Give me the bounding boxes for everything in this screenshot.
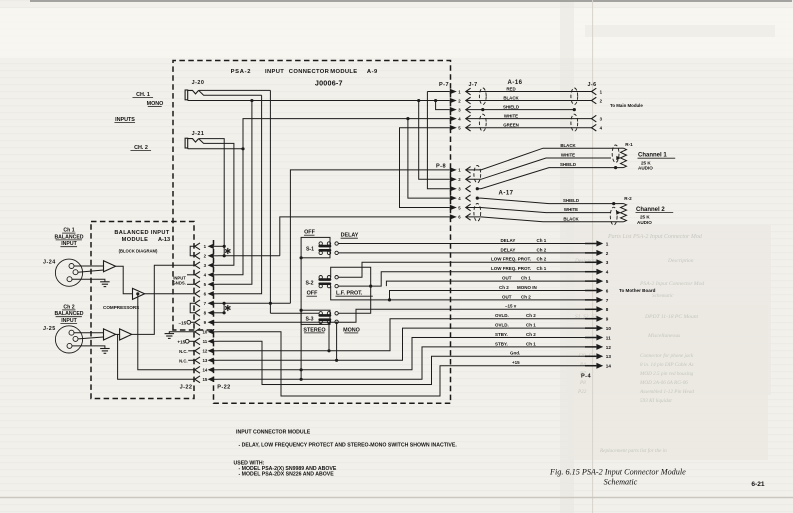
junction compressor1 out (136, 292, 139, 295)
P-22 pin 15 arrow (208, 377, 214, 382)
P-7 pin 2 arrow (450, 98, 457, 103)
wire pin 15 to STBY Ch1 bus (218, 347, 596, 379)
J-7 pin 1 contact (466, 88, 471, 95)
svg-text:OVLD.: OVLD. (495, 313, 509, 318)
svg-text:Ch 2: Ch 2 (526, 332, 536, 337)
switch S-3 STEREO/MONO (319, 312, 322, 315)
junction shield wire right (573, 108, 576, 111)
junction common rail on pin 14 (300, 368, 303, 371)
svg-text:R-2: R-2 (624, 196, 632, 201)
switch S-1 DELAY (319, 242, 322, 245)
wire XLR2 pin to amp (74, 332, 104, 334)
svg-text:AUDIO: AUDIO (638, 166, 653, 171)
ground symbol pin 10 (169, 332, 194, 334)
svg-text:Gnd.: Gnd. (510, 351, 520, 356)
svg-text:+15: +15 (512, 360, 520, 365)
svg-text:+15: +15 (177, 339, 185, 344)
junction shield at R-2 (612, 202, 615, 205)
wire J-21 tip down to J-22 pins 1-2 (199, 139, 225, 247)
junction Ch 2 MONO IN riser (388, 298, 391, 301)
svg-text:R-1: R-1 (625, 142, 633, 147)
wire compressor2 to pin 3 (132, 265, 195, 334)
svg-text:CONNECTOR: CONNECTOR (289, 69, 330, 75)
ground symbol ch2 input (100, 348, 110, 350)
P-22 connector dashed edge (213, 240, 215, 330)
svg-text:J-6: J-6 (588, 82, 597, 88)
svg-text:1: 1 (606, 241, 609, 246)
cable shield oval right pins1-3 (571, 88, 578, 105)
wire J-20 ring vertical to pin 6 (218, 95, 262, 294)
svg-text:GNDS.: GNDS. (173, 280, 186, 285)
svg-text:J-25: J-25 (43, 326, 56, 332)
svg-text:11: 11 (606, 335, 611, 340)
svg-text:INPUTS: INPUTS (115, 117, 135, 123)
svg-text:To Mother Board: To Mother Board (619, 288, 656, 293)
junction A-17 shield ch2 (476, 197, 479, 200)
P-4 pin 11 arrow (585, 337, 596, 339)
wire ch2 WHITE (466, 208, 611, 213)
switch S-3 box (301, 310, 330, 324)
P-22 pin 6 arrow (208, 291, 214, 296)
J-22 pin 11 contact (195, 338, 200, 345)
wire S-3 contact to pin 13 (336, 322, 338, 361)
svg-text:Ch 2: Ch 2 (499, 285, 509, 290)
svg-text:A-17: A-17 (498, 191, 513, 197)
wire tap to pin 14 (138, 294, 195, 370)
P-4 pin 2 arrow (585, 252, 596, 254)
J-22 pin 5 contact (195, 281, 200, 288)
svg-text:13: 13 (606, 354, 612, 359)
wire pins 1-2 bridge (218, 245, 224, 247)
J-7 pin 4 contact (466, 115, 471, 122)
balanced input module A-13 dashed box (91, 222, 194, 399)
svg-text:BLACK: BLACK (560, 143, 576, 148)
svg-text:SHIELD: SHIELD (560, 162, 576, 167)
svg-text:P22: P22 (577, 389, 587, 395)
cable shield oval A-17 pins1-2 (474, 166, 481, 183)
svg-text:INPUT CONNECTOR MODULE: INPUT CONNECTOR MODULE (236, 430, 311, 436)
wire pin 7 to P-8 pin 1 riser (224, 302, 290, 304)
svg-text:STEREO: STEREO (303, 327, 325, 333)
svg-text:P-7: P-7 (439, 82, 449, 88)
wire P-7 pin4 to P-8 pin4 (408, 119, 450, 198)
svg-text:RED: RED (506, 86, 515, 91)
svg-text:10: 10 (606, 326, 612, 331)
wire A-16 BLACK (466, 100, 592, 102)
svg-text:SHIELD: SHIELD (503, 104, 519, 109)
svg-text:6-21: 6-21 (751, 481, 765, 488)
svg-text:2: 2 (606, 251, 609, 256)
wire XLR2 ground (72, 346, 105, 349)
P-22 pin 10 arrow (208, 329, 214, 334)
J-22 pin 8 contact (195, 309, 200, 316)
J-6 pin 4 contact (592, 124, 597, 131)
P-22 pin 4 arrow (208, 272, 214, 277)
wire amp1 to compressor1 (116, 266, 133, 294)
wire XLR2 pin to amp 2 (78, 337, 104, 339)
svg-text:To Main Module: To Main Module (610, 103, 643, 108)
svg-text:P-22: P-22 (217, 385, 230, 391)
svg-text:COMPRESSORS: COMPRESSORS (103, 305, 139, 310)
wire P-8 pin1 from module (290, 170, 449, 303)
P-8 mating contact 6 (466, 214, 471, 221)
P-4 pin 12 arrow (585, 346, 596, 348)
svg-text:OUT: OUT (502, 294, 512, 299)
svg-text:BALANCED INPUT: BALANCED INPUT (114, 230, 170, 236)
wire pin 12 to OVLD Ch2 bus (218, 319, 596, 351)
svg-text:P8: P8 (579, 380, 586, 386)
svg-text:MOD 2.5 pin red housing: MOD 2.5 pin red housing (639, 371, 694, 377)
wire J-21 sleeve (187, 147, 189, 150)
svg-text:A-9: A-9 (367, 69, 378, 75)
wire XLR1 ground (72, 279, 105, 282)
svg-text:14: 14 (202, 368, 207, 373)
wire P-7 pin1 stub (427, 91, 449, 93)
svg-text:WHITE: WHITE (504, 113, 518, 118)
svg-text:P-8: P-8 (436, 164, 446, 170)
svg-text:MONO: MONO (147, 101, 164, 107)
common rail from S-1 to pin 15 (300, 258, 302, 380)
switch S-2 L.F. PROT (319, 276, 322, 279)
svg-text:P-4: P-4 (581, 374, 591, 380)
P-22 pin 5 arrow (208, 282, 214, 287)
wire S-3 pole to pin 12 (328, 322, 330, 351)
svg-text:OVLD.: OVLD. (495, 323, 509, 328)
wire J-20 tip vertical to S-3 (269, 90, 271, 313)
svg-text:5: 5 (606, 279, 609, 284)
wire S-2 bottom contact to LOW FREQ Ch1 bus (338, 272, 596, 286)
wire sleeve tap vertical to pin 5 (250, 99, 253, 102)
svg-text:DELAY: DELAY (501, 247, 516, 252)
svg-text:14: 14 (606, 364, 612, 369)
P-4 pin 14 arrow (585, 365, 596, 367)
op-amp ch1 input buffer (104, 261, 116, 272)
cable shield oval at R-2 (610, 207, 617, 225)
wire pin 14 to STBY Ch2 bus (218, 338, 596, 370)
J-22 pin 1 contact (195, 243, 200, 250)
cable shield oval left pins1-3 (479, 88, 486, 105)
J-7 pin 5 contact (466, 124, 471, 131)
svg-text:Schematic: Schematic (652, 293, 674, 299)
junction A-17 shield ch1 (476, 187, 479, 190)
svg-text:INPUT: INPUT (61, 318, 77, 324)
P-4 pin 13 arrow (585, 355, 596, 357)
compressor ch1 (133, 288, 145, 299)
P-22 pin 3 arrow (208, 263, 214, 268)
svg-text:DELAY: DELAY (341, 233, 359, 239)
wire pin 9 to -15 v bus (218, 309, 596, 322)
svg-text:A-16: A-16 (507, 80, 522, 86)
input connector module A-9 dashed box (173, 61, 451, 404)
svg-text:–15: –15 (179, 320, 187, 325)
wire S-2 pole to OUT Ch 2 bus (331, 286, 597, 300)
P-4 pin 6 arrow (585, 290, 596, 292)
svg-text:BALANCED: BALANCED (54, 234, 83, 240)
svg-text:13: 13 (202, 358, 207, 363)
svg-text:12: 12 (202, 349, 207, 354)
svg-text:9: 9 (606, 317, 609, 322)
wire P-7 pin5 to P-8 pin5 (400, 128, 450, 208)
J-22 pin 12 contact (195, 347, 200, 354)
wire A-16 GREEN (466, 127, 592, 129)
P-22 pin 2 arrow (208, 253, 214, 258)
J-22 pin 14 contact (195, 366, 200, 373)
wire pin 10 loop to +15 bus (218, 332, 596, 396)
svg-text:J-21: J-21 (192, 131, 205, 137)
wire A-16 SHIELD (466, 109, 575, 111)
junction P-7 pin2 / bridge to pin3 (434, 99, 437, 102)
P-8 mating contact 5 (466, 204, 471, 211)
junction P-7 pin2 / P-8 pin2 drop (417, 99, 420, 102)
svg-text:Ch 2: Ch 2 (537, 247, 547, 252)
svg-text:Description: Description (667, 258, 694, 264)
P-22 pin 14 arrow (208, 367, 214, 372)
wire ch1 WHITE (466, 158, 611, 179)
svg-text:593 KI liquidat: 593 KI liquidat (640, 398, 672, 404)
J-22 pins 1-2 jumper (190, 246, 194, 256)
asterisk note pins 1-2 (227, 248, 229, 254)
wire pin 2 to P-8 pin 6 riser (218, 255, 280, 257)
svg-text:MOD 2A-06 6A RG-06: MOD 2A-06 6A RG-06 (639, 380, 688, 386)
P-22 pin 13 arrow (208, 358, 214, 363)
J-22 pin 15 contact (195, 376, 200, 383)
J-22 pin 9 contact (195, 319, 200, 326)
wire J-21 ring down to pin 3 (199, 139, 234, 266)
P-7 pin 4 arrow (450, 116, 457, 121)
P-8 pin 3 arrow (450, 186, 457, 191)
svg-text:J0006-7: J0006-7 (315, 79, 343, 88)
svg-text:DELAY: DELAY (501, 238, 516, 243)
wire ch2 SHIELD (477, 198, 619, 204)
svg-text:J-24: J-24 (43, 260, 56, 266)
svg-text:Fig. 6.15 PSA-2 Input Connect: Fig. 6.15 PSA-2 Input Connector Module (549, 468, 686, 477)
svg-text:N.C.: N.C. (179, 358, 187, 363)
svg-text:Replacement parts list for the: Replacement parts list for the in (599, 447, 667, 454)
junction P-7 pin 4 / P-8 pin 4 drop (406, 117, 409, 120)
P-4 pin 4 arrow (585, 271, 596, 273)
svg-text:OUT: OUT (502, 276, 512, 281)
P-7 pin 3 arrow (450, 107, 457, 112)
cable shield oval A-17 pins5-6 (474, 204, 481, 222)
svg-text:Ch 1: Ch 1 (537, 238, 547, 243)
svg-text:6: 6 (606, 288, 609, 293)
asterisk note pins 7-8 (227, 305, 229, 311)
P-8 mating contact 4 (466, 195, 471, 202)
J-22 pin 7 contact (195, 300, 200, 307)
svg-text:8 in. 14 pin DIP Cable As: 8 in. 14 pin DIP Cable As (640, 361, 694, 368)
svg-text:J-7: J-7 (469, 82, 478, 88)
svg-text:S-3: S-3 (305, 316, 313, 322)
op-amp ch2 input buffer (104, 329, 116, 340)
svg-text:Ch 2: Ch 2 (537, 257, 547, 262)
svg-text:LOW FREQ. PROT.: LOW FREQ. PROT. (491, 257, 531, 262)
junction S-3 pole stub on pin 12 (327, 349, 330, 352)
svg-text:3: 3 (606, 260, 609, 265)
svg-text:INPUT: INPUT (265, 69, 284, 75)
compressor ch2 (120, 329, 132, 340)
wire S-1 to DELAY Ch2 bus (338, 252, 596, 254)
P-8 pin 1 arrow (450, 167, 457, 172)
cable shield oval left pins4-5 (479, 114, 486, 131)
svg-text:Channel 1: Channel 1 (638, 153, 667, 159)
J-7 pin 3 contact (466, 106, 471, 113)
wire tap to pin 15 (118, 334, 195, 379)
svg-text:15: 15 (202, 377, 207, 382)
wire ch1 SHIELD (477, 168, 619, 189)
P-4 pin 1 arrow (585, 243, 596, 245)
svg-text:S-2: S-2 (305, 280, 313, 286)
junction shield wire left (481, 108, 484, 111)
svg-text:Schematic: Schematic (604, 478, 638, 487)
wire J-20 ring contact (199, 90, 262, 95)
P-4 pin 3 arrow (585, 261, 596, 263)
wire pin 13 to OVLD Ch1 bus (218, 328, 596, 360)
P-4 pin 9 arrow (585, 318, 596, 320)
ground symbol ch1 input (100, 281, 110, 283)
junction common rail end on pin 15 (300, 378, 303, 381)
P-22 pin 8 arrow (208, 310, 214, 315)
svg-text:7: 7 (606, 298, 609, 303)
junction shield at R-1 (614, 166, 617, 169)
P-8 pin 4 arrow (450, 195, 457, 200)
P-8 mating contact 2 (466, 176, 471, 183)
svg-text:S-1: S-1 (306, 247, 314, 253)
P-22 pin 12 arrow (208, 348, 214, 353)
svg-text:Channel 2: Channel 2 (636, 207, 665, 213)
cable shield oval right pins4-5 (571, 114, 578, 131)
svg-text:P4: P4 (579, 361, 586, 368)
svg-text:Ch 1: Ch 1 (537, 266, 547, 271)
wire XLR1 pin to amp 2 (78, 270, 104, 272)
wire A-16 WHITE (466, 118, 592, 120)
svg-text:Ch 1: Ch 1 (63, 228, 74, 234)
junction interconnect on LOW FREQ Ch1 wire (369, 285, 372, 288)
P-22 pin 11 arrow (208, 339, 214, 344)
svg-text:Parts List PSA-2 Input Conn: Parts List PSA-2 Input Connector Mod (607, 234, 703, 240)
svg-text:–15 v: –15 v (505, 304, 517, 309)
P-8 pin 6 arrow (450, 214, 457, 219)
svg-text:Ch 2: Ch 2 (63, 304, 74, 310)
svg-text:4: 4 (606, 270, 609, 275)
svg-text:8: 8 (606, 307, 609, 312)
svg-text:MONO IN: MONO IN (517, 285, 537, 290)
wire S-2 pole to S-3 contact (331, 267, 371, 313)
switch S-1 box (301, 237, 330, 257)
svg-text:STBY.: STBY. (495, 332, 508, 337)
junction S-3 contact stub on pin 13 (335, 359, 338, 362)
wire compressor1 to pin 6 (145, 293, 195, 295)
svg-text:12: 12 (606, 345, 612, 350)
junction J-21 sleeve / ground net (241, 147, 244, 150)
svg-text:CH. 2: CH. 2 (134, 145, 148, 151)
svg-text:- MODEL PSA-2DX SN226 AND AB: - MODEL PSA-2DX SN226 AND ABOVE (239, 472, 335, 478)
J-22 pins 7-8 jumper (190, 303, 194, 313)
svg-text:Miscellaneous: Miscellaneous (647, 333, 680, 339)
wire Ch 2 MONO IN bus (390, 291, 597, 300)
svg-text:GREEN: GREEN (503, 123, 519, 128)
wire S-1 to DELAY Ch1 bus (338, 243, 596, 245)
J-6 pin 3 contact (592, 115, 597, 122)
J-22 pin 6 contact (195, 290, 200, 297)
P-4 pin 5 arrow (585, 280, 596, 282)
J-7 pin 2 contact (466, 97, 471, 104)
svg-text:OFF: OFF (307, 291, 318, 297)
svg-text:WHITE: WHITE (561, 153, 575, 158)
wire P-8 pin6 from module (280, 217, 450, 256)
P-8 pin 5 arrow (450, 205, 457, 210)
wire J-20 sleeve to P-7 pin 2 (187, 99, 189, 102)
wire A-16 RED (466, 91, 592, 93)
P-8 pin 2 arrow (450, 177, 457, 182)
J-22 pin 13 contact (195, 357, 200, 364)
svg-text:AUDIO: AUDIO (637, 220, 652, 225)
svg-text:DPDT 11-18 PC Mount: DPDT 11-18 PC Mount (644, 314, 699, 320)
svg-text:CH. 1: CH. 1 (136, 92, 150, 98)
wire OUT Ch 1 bus riser (386, 281, 596, 286)
svg-text:PSA-2 Input Connector Mod: PSA-2 Input Connector Mod (639, 281, 704, 287)
wire pin 11 loop to Gnd bus (218, 341, 596, 384)
J-22 pin 3 contact (195, 262, 200, 269)
P-7 pin 5 arrow (450, 125, 457, 130)
svg-text:MODULE: MODULE (330, 69, 357, 75)
svg-text:11: 11 (203, 339, 208, 344)
svg-text:LOW FREQ. PROT.: LOW FREQ. PROT. (491, 266, 531, 271)
wire P-7 pin2-pin3 bridge (436, 101, 450, 110)
P-22 pin 1 arrow (208, 244, 214, 249)
svg-text:Ch 1: Ch 1 (526, 341, 536, 346)
wire S-2 top contact to LOW FREQ Ch2 bus (338, 262, 596, 277)
svg-text:L.F. PROT.: L.F. PROT. (336, 291, 363, 297)
svg-text:BLACK: BLACK (563, 216, 579, 221)
junction J-20 tip / pin 7 net (269, 302, 272, 305)
svg-text:Ch 1: Ch 1 (526, 323, 536, 328)
svg-text:STBY.: STBY. (495, 341, 508, 346)
P-4 pin 10 arrow (585, 327, 596, 329)
svg-text:BLACK: BLACK (503, 95, 519, 100)
J-6 pin 2 contact (592, 97, 597, 104)
svg-text:N.C.: N.C. (179, 349, 187, 354)
svg-text:(BLOCK DIAGRAM): (BLOCK DIAGRAM) (119, 249, 158, 254)
P-4 pin 7 arrow (585, 299, 596, 301)
P-4 pin 8 arrow (585, 308, 596, 310)
P-22 pin 7 arrow (208, 301, 214, 306)
J-22 pin 2 contact (195, 252, 200, 259)
svg-text:INPUT: INPUT (61, 241, 77, 247)
cable shield oval at R-1 (612, 145, 619, 163)
svg-text:Ch 2: Ch 2 (521, 294, 531, 299)
P-22 pin 9 arrow (208, 320, 214, 325)
J-22 pin 10 contact (195, 328, 200, 335)
svg-text:SHIELD: SHIELD (563, 198, 579, 203)
svg-text:- DELAY, LOW FREQUENCY PROTE: - DELAY, LOW FREQUENCY PROTECT AND STERE… (239, 443, 458, 449)
svg-text:Assembled 1-12 Pin Head: Assembled 1-12 Pin Head (639, 389, 694, 395)
svg-text:WHITE: WHITE (564, 207, 578, 212)
svg-text:BALANCED: BALANCED (54, 311, 83, 317)
wire P-7 pin1 to P-8 pin3 (427, 92, 449, 189)
P-8 mating contact 1 (466, 167, 471, 174)
svg-text:PSA-2: PSA-2 (231, 69, 252, 75)
svg-text:Ch 1: Ch 1 (521, 276, 531, 281)
wire XLR1 pin to amp (74, 265, 104, 267)
P-8 mating contact 3 (466, 185, 471, 192)
wire ch2 BLACK (466, 217, 619, 222)
svg-text:MODULE: MODULE (122, 237, 149, 243)
wire ground net vertical pin 4 to P-7 pin 4 (218, 119, 450, 275)
svg-text:MONO: MONO (343, 327, 360, 333)
svg-text:Connector for phone jack: Connector for phone jack (640, 352, 694, 359)
J-6 pin 1 contact (592, 88, 597, 95)
J-22 pin 4 contact (195, 271, 200, 278)
